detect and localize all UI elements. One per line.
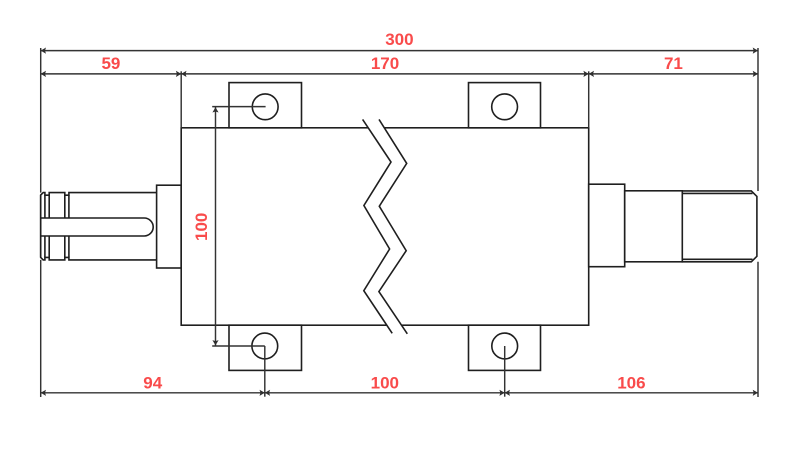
arrows 71 [589, 71, 594, 77]
hole bottom left [252, 333, 278, 359]
ext line left top [40, 48, 42, 193]
ext line right top [757, 48, 759, 191]
bottom lug right [469, 325, 541, 370]
bottom hole center line left [264, 346, 266, 397]
arrows 106 [505, 390, 510, 396]
hole bottom right [492, 333, 518, 359]
arrows vertical 100 [212, 107, 218, 112]
svg-text:170: 170 [371, 54, 399, 73]
ext line right bottom [757, 262, 759, 397]
top lug left [229, 83, 302, 128]
right collar [589, 184, 625, 267]
leader top hole [212, 106, 265, 108]
ext line body left [180, 71, 182, 128]
arrows 94 [41, 390, 46, 396]
left collar [157, 185, 182, 268]
ext line left bottom [40, 260, 42, 397]
ext line body right [588, 71, 590, 128]
break zigzag right [379, 119, 407, 333]
thread minor lines [682, 192, 752, 194]
arrows 100 bottom [265, 390, 270, 396]
arrowheads [41, 48, 758, 396]
svg-text:59: 59 [101, 54, 120, 73]
vertical dim 100 [215, 107, 217, 346]
break band mask [363, 119, 408, 333]
hole top left [252, 94, 278, 120]
hole top right [492, 94, 518, 120]
bottom hole center line right [504, 346, 506, 397]
svg-text:300: 300 [385, 30, 413, 49]
groove wall lines [44, 195, 46, 257]
threaded end [682, 191, 757, 262]
leader bottom hole [212, 345, 265, 347]
arrows 300 [41, 48, 46, 54]
keyway slot [40, 218, 153, 236]
shaft left end edge [40, 195, 42, 257]
arrows 59 [41, 71, 46, 77]
dim line 300 [41, 50, 758, 52]
left splined shaft outline [41, 193, 158, 260]
break zigzag left [363, 119, 393, 333]
svg-text:106: 106 [617, 373, 645, 392]
svg-text:94: 94 [143, 373, 162, 392]
right shaft [625, 191, 683, 262]
svg-text:100: 100 [192, 213, 211, 241]
dimension lines [41, 48, 758, 397]
top lug right [469, 83, 541, 128]
svg-text:100: 100 [371, 373, 399, 392]
dim line 59/170/71 [41, 73, 758, 75]
dim line 94/100/106 [41, 392, 758, 394]
svg-text:71: 71 [664, 54, 683, 73]
main body [181, 128, 589, 325]
arrows 170 [181, 71, 186, 77]
bottom lug left [229, 325, 302, 370]
